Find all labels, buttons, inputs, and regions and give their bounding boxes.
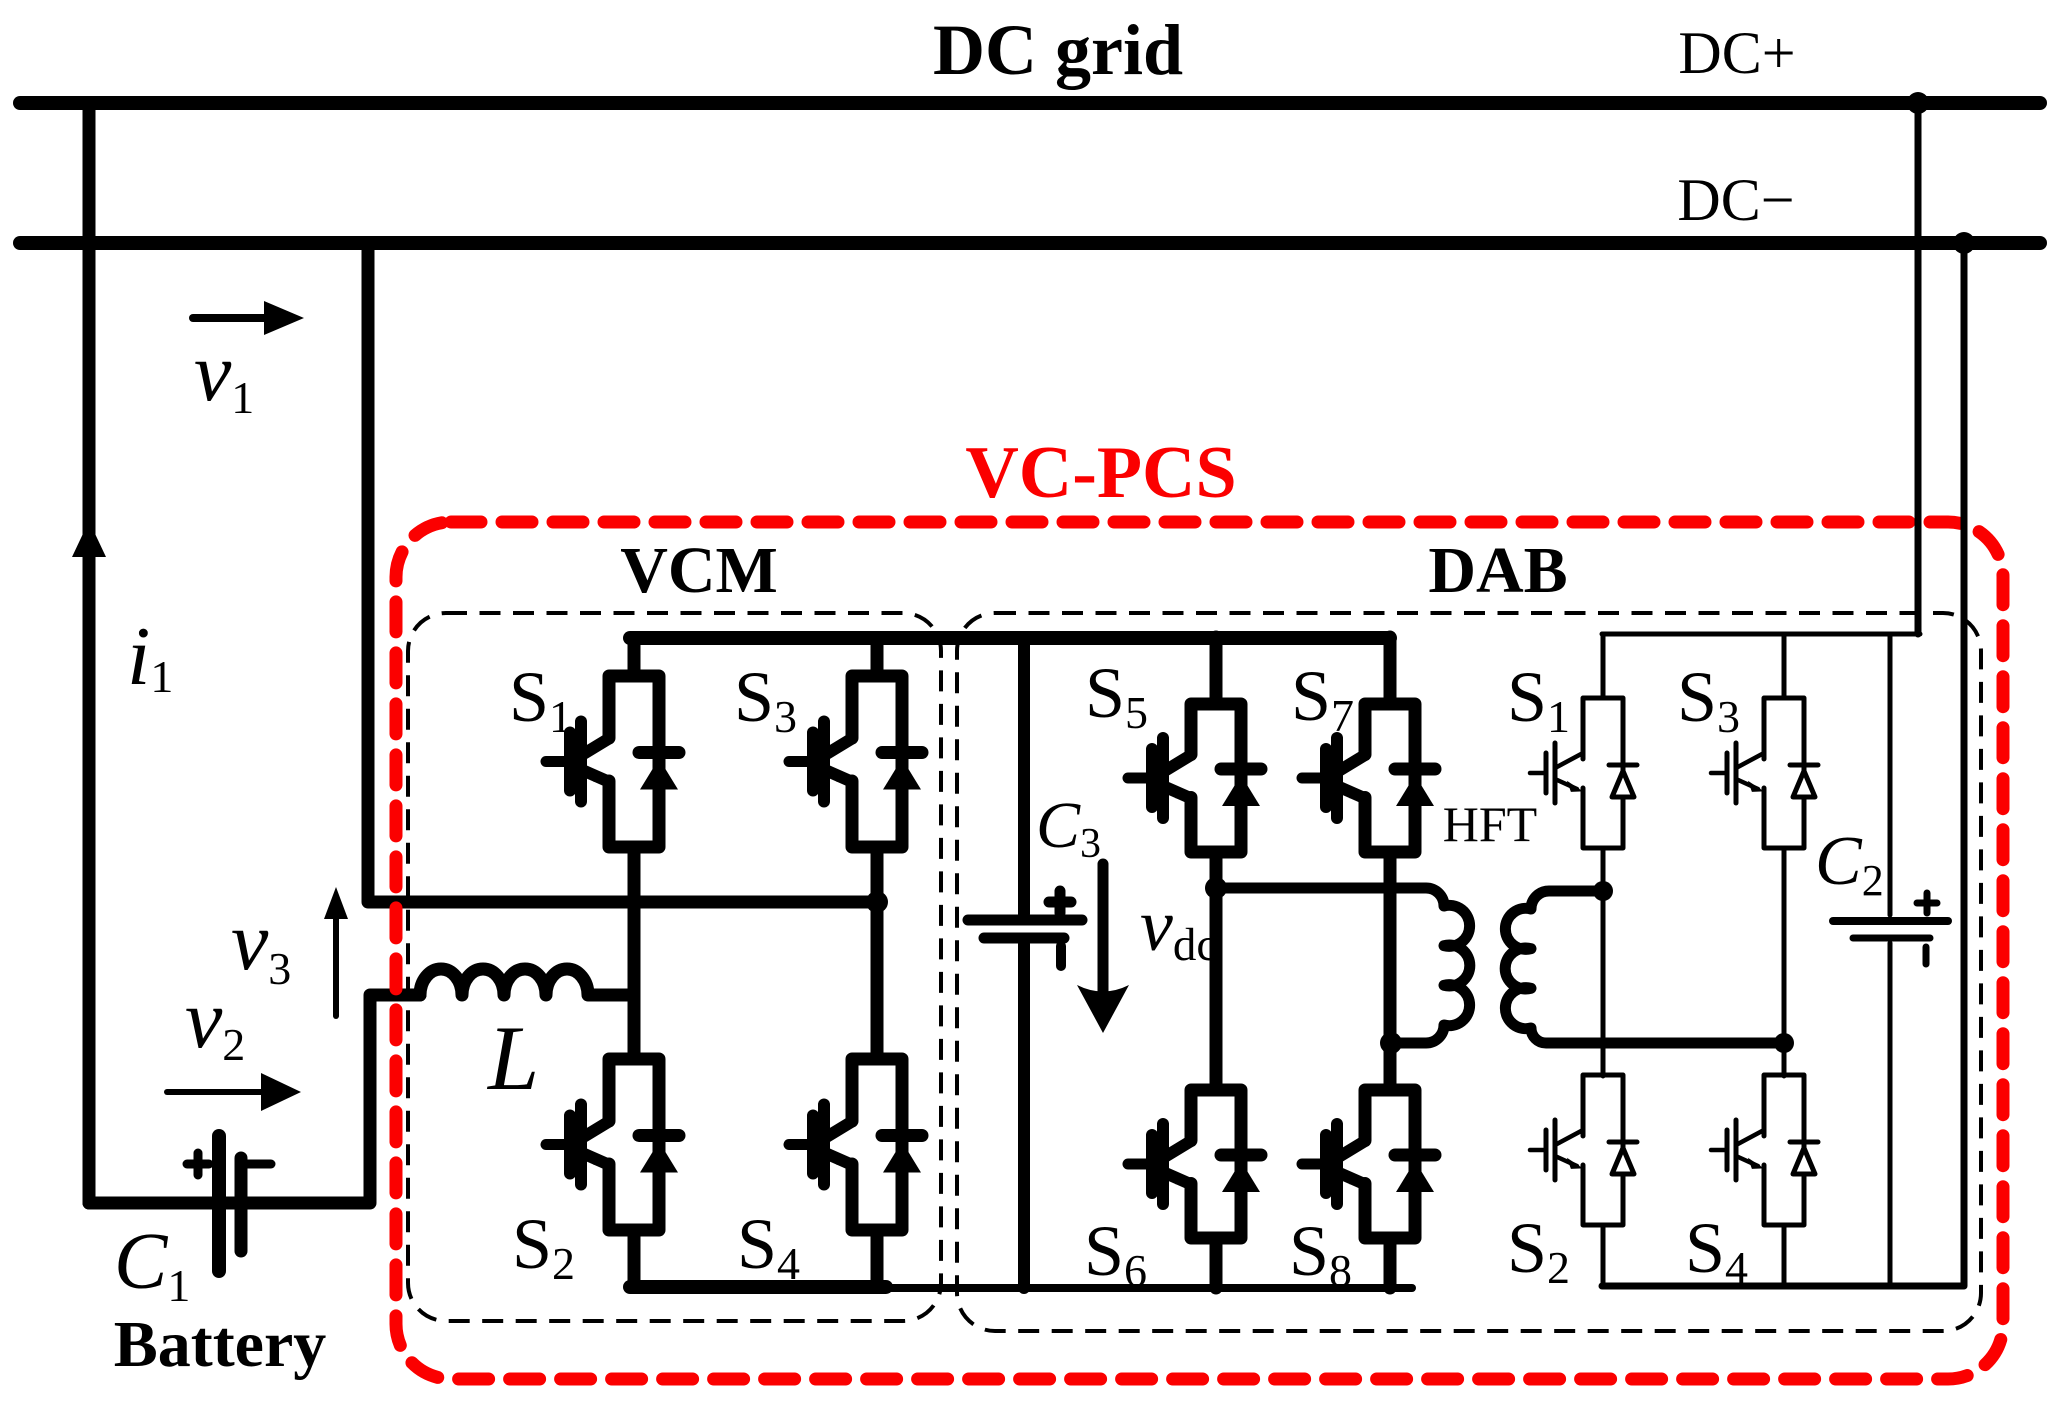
svg-text:VCM: VCM <box>620 534 778 607</box>
svg-text:S2: S2 <box>512 1204 575 1289</box>
svg-text:DC−: DC− <box>1677 167 1794 233</box>
transistor S3 (VCM) <box>789 676 922 847</box>
transistor S6 (DAB) <box>1128 1090 1261 1238</box>
svg-text:DC grid: DC grid <box>933 10 1183 90</box>
svg-text:v1: v1 <box>194 326 254 423</box>
arrow i1 (current direction up) <box>72 521 106 557</box>
wire: VCM right leg <box>871 638 884 1287</box>
dashed box VCM <box>408 613 941 1321</box>
wire: right bridge bottom rail <box>1602 1283 1963 1290</box>
node: S7/S8 midpoint at primary bottom <box>1380 1032 1402 1054</box>
svg-text:HFT: HFT <box>1443 796 1537 852</box>
arrow v2 <box>167 1073 301 1111</box>
transistor S2 (DAB right) <box>1530 1075 1637 1225</box>
node: DC+ junction <box>1907 92 1929 114</box>
svg-text:S6: S6 <box>1084 1211 1147 1296</box>
capacitor C3 <box>968 637 1082 1288</box>
dashed box DAB <box>957 613 1981 1331</box>
transistor S1 (VCM) <box>546 676 679 847</box>
node: DC- junction <box>1953 232 1975 254</box>
node: S5/S6 midpoint <box>1205 877 1227 899</box>
wire: right S1/S2 leg <box>1601 634 1606 1286</box>
svg-text:S1: S1 <box>1507 657 1570 742</box>
red dashed box VC-PCS <box>396 522 2003 1379</box>
svg-text:S3: S3 <box>1677 657 1740 742</box>
wire: DAB S7/S8 leg <box>1384 637 1397 1288</box>
svg-text:S3: S3 <box>734 657 797 742</box>
node: secondary top junction <box>1593 881 1613 901</box>
wire: left vertical from DC+ bus to battery <box>83 103 96 1203</box>
arrow vdc <box>1077 864 1129 1033</box>
svg-text:Battery: Battery <box>114 1308 327 1381</box>
arrow v1 <box>193 301 304 335</box>
wire: battery positive riser and bottom wire <box>89 995 420 1203</box>
svg-text:i1: i1 <box>127 610 173 703</box>
transistor S4 (DAB right) <box>1711 1075 1818 1225</box>
svg-text:DAB: DAB <box>1428 534 1567 607</box>
capacitor C1 (battery side) <box>187 1136 271 1271</box>
node: secondary bottom junction <box>1774 1033 1794 1053</box>
DC- bus <box>20 236 2040 250</box>
wire: VCM+DAB top rail <box>630 631 1390 645</box>
wire: VCM bottom rail <box>630 1280 886 1294</box>
wire: DC+ drop to right bridge <box>1915 103 1922 634</box>
transistor S3 (DAB right) <box>1711 698 1818 848</box>
wire: right S3/S4 leg <box>1782 634 1787 1286</box>
wire: right bridge top rail <box>1602 632 1920 637</box>
svg-text:S4: S4 <box>737 1204 800 1289</box>
node: v3 junction on VCM right leg <box>866 891 888 913</box>
transistor S5 (DAB) <box>1128 704 1261 852</box>
transistor S7 (DAB) <box>1302 704 1435 852</box>
transistor S2 (VCM) <box>546 1059 679 1230</box>
wire: DC- drop to right bridge bottom <box>1961 243 1968 1286</box>
svg-text:S2: S2 <box>1507 1208 1570 1293</box>
transistor S4 (VCM) <box>789 1059 922 1230</box>
transistor S8 (DAB) <box>1302 1090 1435 1238</box>
wire: bottom rail continuation to DAB left bridge <box>886 1284 1412 1292</box>
transistor S1 (DAB right) <box>1530 698 1637 848</box>
capacitor C2 <box>1833 634 1948 1286</box>
wire: DAB S5/S6 leg <box>1210 637 1223 1288</box>
transformer HFT secondary winding <box>1505 891 1784 1043</box>
svg-text:S8: S8 <box>1289 1211 1352 1296</box>
svg-text:S5: S5 <box>1085 653 1148 738</box>
svg-text:S4: S4 <box>1685 1208 1748 1293</box>
wire: DAB mid rail + transformer primary winding <box>1216 888 1470 1043</box>
svg-text:C2: C2 <box>1815 823 1884 905</box>
svg-text:S1: S1 <box>509 657 572 742</box>
svg-text:v3: v3 <box>231 895 291 994</box>
svg-text:S7: S7 <box>1291 656 1354 741</box>
svg-text:DC+: DC+ <box>1678 20 1795 86</box>
wire: DC- drop to v3 node, mid rail of VCM <box>368 243 877 902</box>
svg-text:vdc: vdc <box>1140 885 1217 971</box>
DC+ bus <box>20 96 2040 110</box>
wire: VCM left leg <box>628 638 641 1287</box>
svg-text:C1: C1 <box>114 1218 190 1311</box>
inductor L <box>420 969 634 995</box>
svg-text:VC-PCS: VC-PCS <box>965 432 1236 514</box>
svg-text:C3: C3 <box>1036 789 1101 867</box>
arrow v3 <box>324 887 348 1016</box>
svg-text:L: L <box>486 1007 539 1109</box>
